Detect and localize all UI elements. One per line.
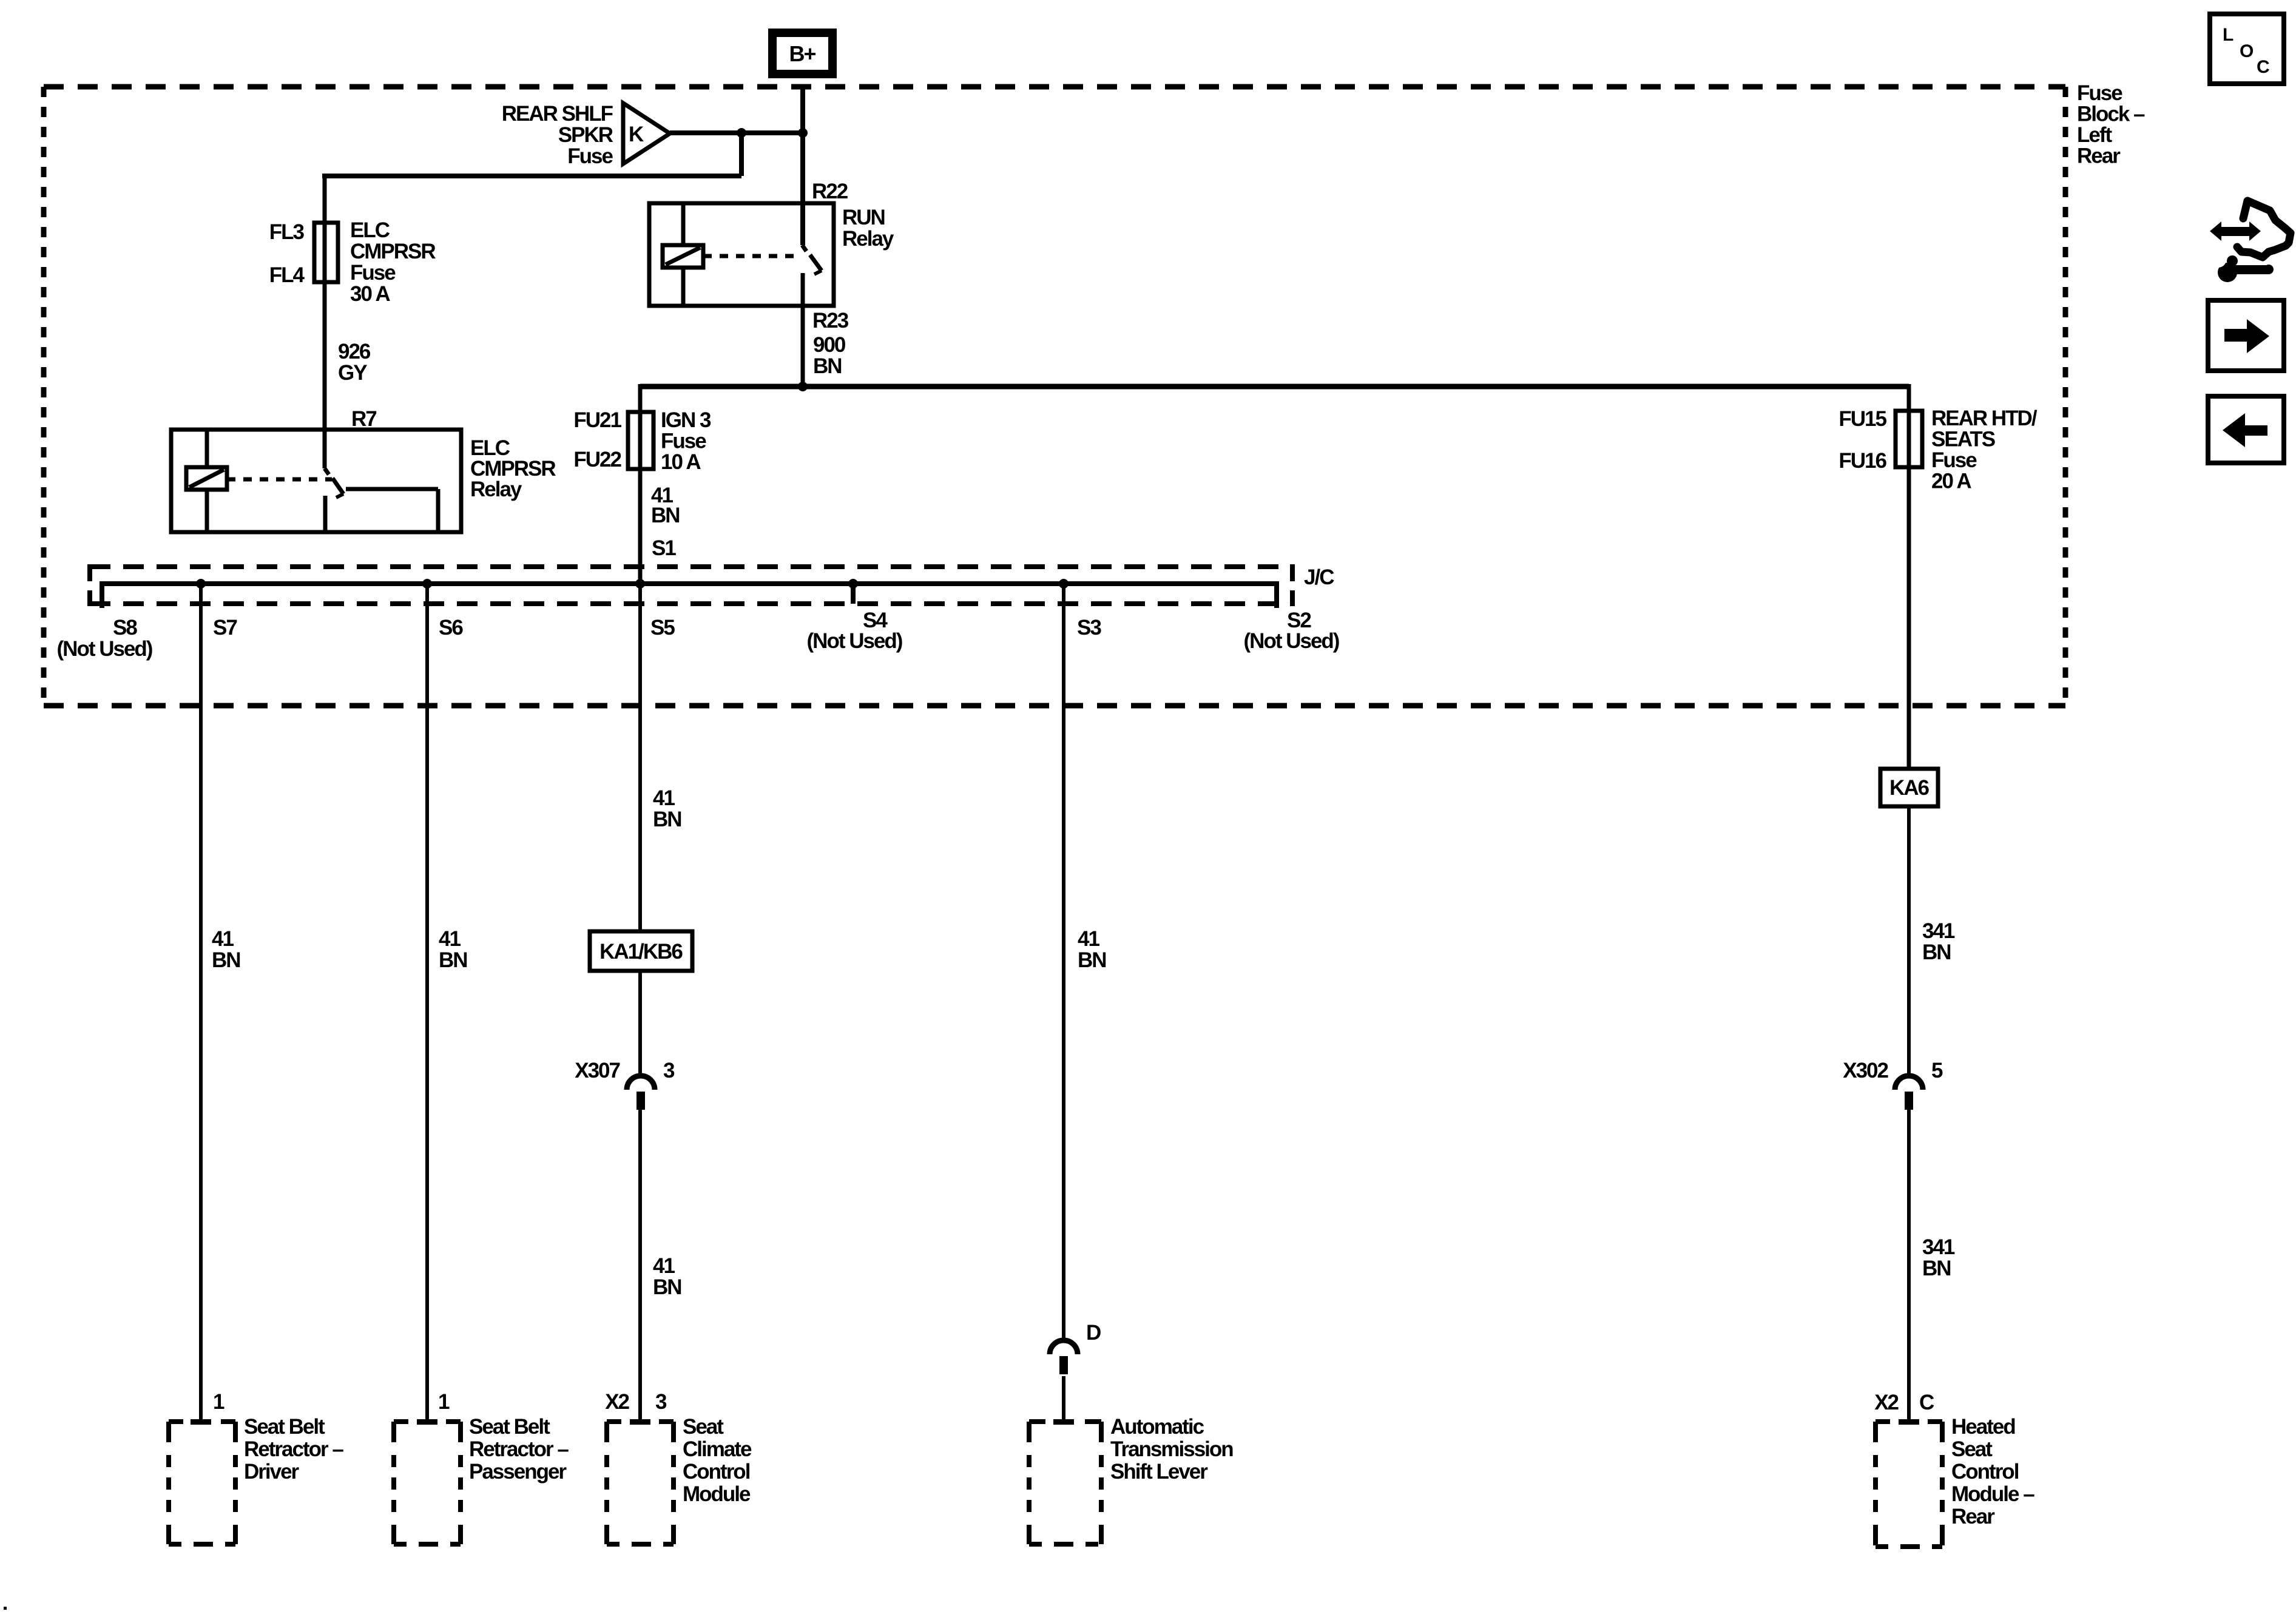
- svg-text:BN: BN: [212, 948, 240, 972]
- svg-text:Rear: Rear: [1951, 1505, 1995, 1528]
- svg-text:20 A: 20 A: [1931, 470, 1971, 493]
- label FU21: [573, 408, 621, 432]
- svg-text:10 A: 10 A: [661, 450, 701, 474]
- svg-text:FU16: FU16: [1838, 449, 1886, 473]
- svg-text:Seat Belt: Seat Belt: [244, 1415, 325, 1439]
- wire FU21 fuse leg down to S1: [638, 384, 643, 584]
- svg-text:Control: Control: [683, 1460, 750, 1484]
- label pin R23: [812, 309, 849, 333]
- svg-text:Retractor –: Retractor –: [469, 1437, 569, 1461]
- svg-text:KA1/KB6: KA1/KB6: [599, 940, 683, 964]
- svg-text:BN: BN: [1922, 1257, 1951, 1280]
- wire S6 column 41 BN to Seat Belt Retractor Passenger: [425, 584, 429, 1422]
- label ELC CMPRSR Relay: [470, 436, 556, 501]
- wire horizontal to FL3 fuse branch: [322, 174, 741, 178]
- svg-text:CMPRSR: CMPRSR: [350, 240, 436, 263]
- wire from K fuse triangle to B+ line: [670, 130, 803, 135]
- svg-text:FL3: FL3: [269, 220, 305, 244]
- svg-text:X2: X2: [1874, 1391, 1899, 1414]
- wire main bus 900 BN horizontal: [640, 384, 1909, 390]
- wire KA6 to X302: [1907, 806, 1911, 1076]
- wire S5 column below X307 to Seat Climate Control Module: [638, 1110, 642, 1422]
- label wire 341 BN below X302: [1922, 1235, 1955, 1280]
- label Seat Belt Retractor - Driver: [244, 1415, 343, 1484]
- svg-text:ELC: ELC: [350, 218, 390, 242]
- label wire 41 BN below X307: [653, 1254, 681, 1299]
- component box Seat Belt Retractor - Driver: [169, 1419, 235, 1544]
- svg-text:Block –: Block –: [2077, 103, 2145, 126]
- label FU15: [1838, 407, 1886, 431]
- icon LOC box: [2210, 14, 2284, 84]
- connector label box KA1/KB6: [590, 931, 692, 971]
- svg-text:Passenger: Passenger: [469, 1460, 567, 1484]
- svg-text:BN: BN: [813, 354, 842, 378]
- wire down from dot to lower horizontal: [739, 133, 744, 176]
- fuse FL3/FL4 ELC CMPRSR 30A rect: [314, 223, 338, 282]
- svg-text:BN: BN: [651, 504, 680, 527]
- svg-text:L: L: [2223, 25, 2234, 45]
- label J/C: [1304, 565, 1334, 589]
- svg-text:Transmission: Transmission: [1110, 1437, 1233, 1461]
- label wire 41 BN column S7: [212, 927, 240, 972]
- svg-text:X307: X307: [575, 1059, 620, 1082]
- svg-text:Shift Lever: Shift Lever: [1110, 1460, 1208, 1484]
- label S8 (Not Used): [57, 616, 152, 661]
- label Heated Seat Control Module - Rear: [1951, 1415, 2034, 1528]
- label IGN 3 Fuse 10 A: [661, 408, 711, 474]
- node junction dot at K fuse wire: [737, 128, 746, 138]
- component box Automatic Transmission Shift Lever: [1029, 1419, 1101, 1544]
- svg-text:IGN 3: IGN 3: [661, 408, 711, 432]
- label pin C at heated seat module: [1919, 1391, 1934, 1414]
- label RUN Relay: [842, 206, 894, 251]
- svg-text:Fuse: Fuse: [1931, 448, 1977, 472]
- svg-text:BN: BN: [439, 948, 467, 972]
- wire FL3/FL4 branch vertical (926 GY / R7): [323, 174, 327, 468]
- label X302: [1843, 1059, 1888, 1082]
- label S7: [213, 616, 237, 640]
- svg-text:Seat Belt: Seat Belt: [469, 1415, 550, 1439]
- label S3: [1077, 616, 1101, 640]
- svg-text:3: 3: [663, 1059, 675, 1082]
- label pin D: [1086, 1321, 1101, 1345]
- svg-text:R22: R22: [812, 180, 848, 203]
- svg-text:Heated: Heated: [1951, 1415, 2015, 1439]
- svg-text:BN: BN: [653, 1275, 681, 1299]
- svg-text:GY: GY: [338, 361, 367, 385]
- svg-text:FU15: FU15: [1838, 407, 1886, 431]
- svg-text:Fuse: Fuse: [567, 144, 613, 168]
- svg-text:FU22: FU22: [573, 448, 621, 471]
- label pin R22: [812, 180, 848, 203]
- svg-text:J/C: J/C: [1304, 565, 1334, 589]
- wire below X302 341 BN to Heated Seat Control Module: [1907, 1110, 1911, 1422]
- svg-text:D: D: [1086, 1321, 1101, 1345]
- node splice S3 dot: [1059, 579, 1069, 589]
- svg-text:5: 5: [1931, 1059, 1943, 1082]
- label wire 900 BN: [813, 333, 846, 378]
- wire RUN relay output R23: [801, 273, 805, 387]
- node junction dot at B+ wire: [798, 128, 808, 138]
- wire S7 column 41 BN to Seat Belt Retractor Driver: [199, 584, 203, 1422]
- svg-text:41: 41: [212, 927, 234, 951]
- svg-text:Module: Module: [683, 1482, 751, 1506]
- svg-text:Rear: Rear: [2077, 144, 2121, 168]
- component box Seat Belt Retractor - Passenger: [394, 1419, 461, 1544]
- wire S5 column between KA1/KB6 and X307: [638, 971, 642, 1076]
- svg-text:RUN: RUN: [842, 206, 885, 229]
- svg-text:R7: R7: [351, 407, 376, 431]
- svg-text:BN: BN: [1078, 948, 1106, 972]
- page corner mark: [4, 1607, 7, 1610]
- svg-text:SPKR: SPKR: [558, 123, 613, 147]
- label S4 (Not Used): [807, 609, 902, 653]
- svg-text:Fuse: Fuse: [2077, 81, 2122, 105]
- svg-text:(Not Used): (Not Used): [57, 637, 152, 661]
- relay RUN (coil, dashed link, switch): [649, 203, 834, 306]
- wire J/C bus left end stub S8: [100, 581, 104, 608]
- fuse FU15/FU16 REAR HTD/SEATS 20A rect: [1896, 411, 1922, 467]
- wire J/C bus right end stub S2: [1274, 581, 1279, 608]
- label splice S1: [652, 536, 676, 560]
- label wire 41 BN below FU22: [651, 484, 680, 527]
- label pin 5 at X302: [1931, 1059, 1943, 1082]
- connector D symbol at shift lever: [1050, 1340, 1078, 1374]
- svg-text:Driver: Driver: [244, 1460, 300, 1484]
- svg-text:1: 1: [438, 1390, 450, 1414]
- svg-text:41: 41: [439, 927, 461, 951]
- wire S4 stub (not used): [851, 584, 856, 604]
- label FU22: [573, 448, 621, 471]
- power symbol B+ box: [772, 33, 832, 74]
- node splice S7 dot: [196, 579, 206, 589]
- svg-text:S1: S1: [652, 536, 676, 560]
- node splice S6 dot: [422, 579, 432, 589]
- svg-text:S5: S5: [650, 616, 675, 640]
- icon forward arrow box: [2208, 300, 2284, 371]
- svg-text:341: 341: [1922, 919, 1955, 943]
- label wire 41 BN column S6: [439, 927, 467, 972]
- svg-text:900: 900: [813, 333, 846, 357]
- label Seat Belt Retractor - Passenger: [469, 1415, 569, 1484]
- label S5: [650, 616, 675, 640]
- svg-text:926: 926: [338, 340, 371, 363]
- svg-text:FL4: FL4: [269, 263, 305, 287]
- svg-text:R23: R23: [812, 309, 849, 333]
- label ELC CMPRSR Fuse 30 A: [350, 218, 436, 306]
- svg-text:FU21: FU21: [573, 408, 621, 432]
- label REAR HTD/ SEATS Fuse 20 A: [1931, 407, 2038, 493]
- node splice S4 dot: [848, 579, 858, 589]
- fuse FU21/FU22 IGN 3 10A rect: [628, 412, 653, 469]
- label pin 1 passenger: [438, 1390, 450, 1414]
- svg-text:Left: Left: [2077, 123, 2113, 147]
- svg-text:Fuse: Fuse: [661, 430, 706, 453]
- label Fuse Block - Left Rear: [2077, 81, 2145, 168]
- label wire 341 BN above X302: [1922, 919, 1955, 964]
- wire FU15 fuse leg down to KA6: [1907, 384, 1911, 769]
- svg-text:REAR SHLF: REAR SHLF: [502, 102, 613, 126]
- label pin 3 at X307: [663, 1059, 675, 1082]
- svg-text:S7: S7: [213, 616, 237, 640]
- wire B+ vertical to RUN relay: [800, 85, 805, 245]
- svg-text:O: O: [2240, 41, 2254, 61]
- svg-text:S8: S8: [113, 616, 137, 640]
- svg-text:Relay: Relay: [470, 478, 522, 501]
- relay R7 ELC CMPRSR (coil, dashed link, switch, contacts): [171, 430, 461, 532]
- svg-text:S6: S6: [439, 616, 463, 640]
- svg-text:KA6: KA6: [1889, 776, 1930, 800]
- component box Seat Climate Control Module: [607, 1419, 674, 1544]
- wire S5 column 41 BN upper: [638, 584, 642, 931]
- node splice S5 dot: [635, 579, 645, 589]
- fuse block dashed border (Fuse Block - Left Rear): [44, 87, 2065, 706]
- svg-text:S3: S3: [1077, 616, 1101, 640]
- component box Heated Seat Control Module - Rear: [1876, 1419, 1942, 1547]
- svg-text:X2: X2: [605, 1390, 629, 1414]
- label pin R7: [351, 407, 376, 431]
- label FU16: [1838, 449, 1886, 473]
- label X2 at climate module: [605, 1390, 629, 1414]
- svg-text:BN: BN: [1922, 940, 1951, 964]
- svg-text:Relay: Relay: [842, 227, 894, 251]
- node junction dot R23/900 BN: [798, 382, 808, 391]
- svg-text:X302: X302: [1843, 1059, 1888, 1082]
- svg-text:1: 1: [213, 1390, 225, 1414]
- label wire 41 BN above KA1/KB6: [653, 786, 681, 831]
- svg-text:3: 3: [655, 1390, 667, 1414]
- label wire 926 GY: [338, 340, 371, 385]
- label S2 (Not Used): [1244, 609, 1339, 653]
- wire J/C bus bar S1..S8: [102, 581, 1277, 586]
- label Seat Climate Control Module: [683, 1415, 752, 1506]
- label S6: [439, 616, 463, 640]
- junction block J/C dashed box: [90, 564, 1292, 606]
- svg-text:(Not Used): (Not Used): [807, 629, 902, 653]
- svg-text:K: K: [629, 123, 644, 146]
- label wire 41 BN column S3: [1078, 927, 1106, 972]
- label FL3: [269, 220, 305, 244]
- label pin 3 at climate module: [655, 1390, 667, 1414]
- svg-text:(Not Used): (Not Used): [1244, 629, 1339, 653]
- wire S3 column 41 BN to D connector: [1062, 584, 1065, 1342]
- connector X307 pin 3 symbol: [627, 1076, 655, 1110]
- label X307: [575, 1059, 620, 1082]
- label X2 at heated seat module: [1874, 1391, 1899, 1414]
- svg-text:Climate: Climate: [683, 1437, 752, 1461]
- icon harness routing (arrows and wrench): [2210, 201, 2291, 282]
- svg-text:Retractor –: Retractor –: [244, 1437, 343, 1461]
- svg-text:SEATS: SEATS: [1931, 428, 1995, 451]
- svg-text:Control: Control: [1951, 1460, 2019, 1484]
- svg-text:Seat: Seat: [1951, 1437, 1993, 1461]
- connector X302 pin 5 symbol: [1895, 1076, 1923, 1110]
- svg-text:Fuse: Fuse: [350, 261, 396, 285]
- svg-text:BN: BN: [653, 808, 681, 831]
- svg-text:341: 341: [1922, 1235, 1955, 1259]
- svg-text:41: 41: [653, 1254, 675, 1278]
- connector label box KA6: [1880, 769, 1938, 806]
- label Automatic Transmission Shift Lever: [1110, 1415, 1233, 1484]
- svg-text:C: C: [2257, 57, 2269, 77]
- svg-text:Module –: Module –: [1951, 1482, 2034, 1506]
- svg-text:REAR HTD/: REAR HTD/: [1931, 407, 2038, 430]
- fuse symbol K (REAR SHLF SPKR Fuse): [623, 103, 670, 164]
- svg-text:30 A: 30 A: [350, 282, 390, 306]
- svg-text:41: 41: [1078, 927, 1099, 951]
- wire S3 column below D to shift lever: [1062, 1376, 1065, 1422]
- label pin 1 driver: [213, 1390, 225, 1414]
- svg-text:C: C: [1919, 1391, 1934, 1414]
- svg-text:Automatic: Automatic: [1110, 1415, 1204, 1439]
- svg-text:Seat: Seat: [683, 1415, 724, 1439]
- label REAR SHLF SPKR Fuse: [502, 102, 613, 168]
- svg-text:41: 41: [653, 786, 675, 810]
- icon back arrow box: [2208, 396, 2284, 463]
- label FL4: [269, 263, 305, 287]
- svg-text:B+: B+: [789, 41, 815, 66]
